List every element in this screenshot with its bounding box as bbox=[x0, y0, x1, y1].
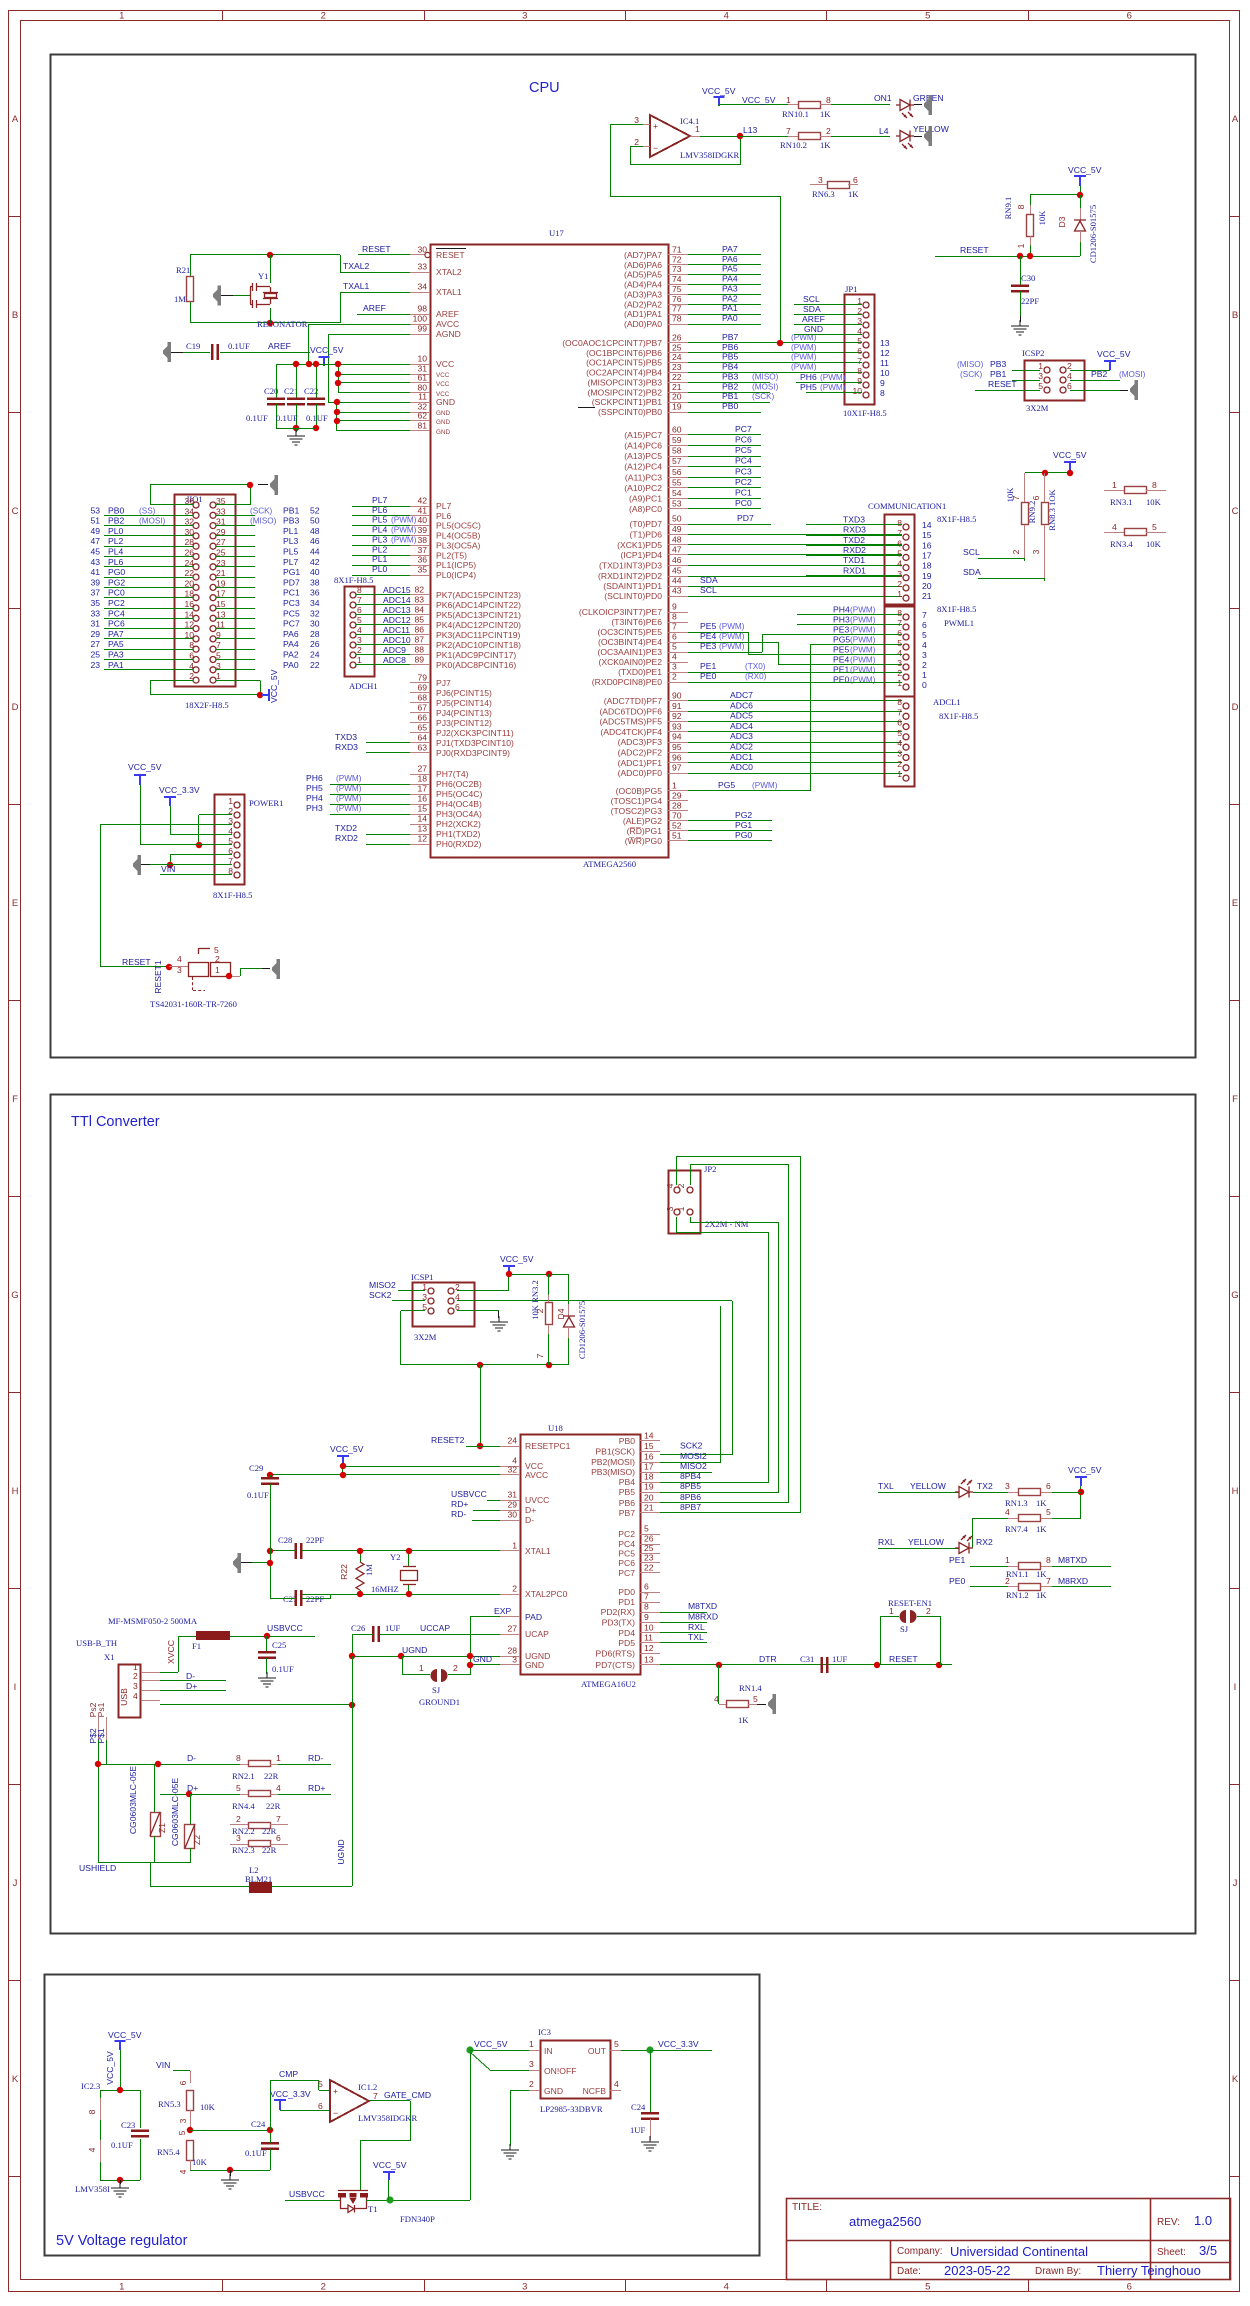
svg-text:3: 3 bbox=[133, 1681, 138, 1691]
svg-text:86: 86 bbox=[414, 625, 424, 635]
svg-text:ADCL1: ADCL1 bbox=[933, 697, 961, 707]
svg-text:K: K bbox=[12, 2074, 19, 2085]
svg-text:PB3: PB3 bbox=[990, 359, 1006, 369]
resistor RN3.1 10K bbox=[1104, 480, 1166, 507]
svg-text:VCC: VCC bbox=[436, 372, 450, 379]
svg-text:67: 67 bbox=[417, 703, 427, 713]
svg-text:(TXD1INT3)PD3: (TXD1INT3)PD3 bbox=[599, 561, 662, 571]
svg-text:4: 4 bbox=[87, 2147, 97, 2152]
U18 left pin RESETPC1 bbox=[431, 1435, 571, 1451]
svg-text:SDA: SDA bbox=[700, 575, 718, 585]
svg-text:D4: D4 bbox=[556, 1308, 566, 1319]
svg-text:21: 21 bbox=[216, 568, 226, 578]
svg-text:PB0: PB0 bbox=[619, 1436, 635, 1446]
svg-text:10: 10 bbox=[644, 1623, 654, 1633]
wire PG5 to PWML1 pin5 bbox=[688, 645, 902, 792]
svg-text:(ALE)PG2: (ALE)PG2 bbox=[623, 816, 662, 826]
svg-text:36: 36 bbox=[310, 588, 320, 598]
svg-text:Y1: Y1 bbox=[258, 271, 269, 281]
svg-text:RESET: RESET bbox=[362, 244, 391, 254]
U18 pad EXP bbox=[470, 1606, 542, 1675]
svg-text:PC0: PC0 bbox=[108, 588, 125, 598]
svg-text:7: 7 bbox=[922, 610, 927, 620]
svg-text:ADC1: ADC1 bbox=[730, 752, 753, 762]
JP1 wires PH6/PH5 PWM bbox=[796, 372, 862, 393]
svg-text:3: 3 bbox=[922, 650, 927, 660]
svg-text:PL2: PL2 bbox=[372, 544, 388, 554]
svg-text:MISO2: MISO2 bbox=[680, 1461, 707, 1471]
svg-text:89: 89 bbox=[414, 655, 424, 665]
svg-text:(W̅R̅)PG0: (W̅R̅)PG0 bbox=[625, 836, 662, 846]
svg-text:22: 22 bbox=[310, 660, 320, 670]
svg-text:PB5: PB5 bbox=[722, 352, 738, 362]
svg-text:50: 50 bbox=[310, 516, 320, 526]
svg-text:PJ3(PCINT12): PJ3(PCINT12) bbox=[436, 718, 492, 728]
svg-text:2: 2 bbox=[1005, 1576, 1010, 1586]
TTl Converter section box bbox=[51, 1095, 1196, 1934]
svg-text:ON!OFF: ON!OFF bbox=[544, 2066, 576, 2076]
svg-text:88: 88 bbox=[414, 645, 424, 655]
svg-text:PK3(ADC11PCINT19): PK3(ADC11PCINT19) bbox=[436, 630, 521, 640]
svg-text:R21: R21 bbox=[176, 265, 190, 275]
svg-text:TXD3: TXD3 bbox=[335, 732, 357, 742]
svg-text:75: 75 bbox=[672, 284, 682, 294]
svg-text:REV:: REV: bbox=[1157, 2217, 1180, 2228]
svg-text:(AD4)PA4: (AD4)PA4 bbox=[624, 280, 662, 290]
svg-text:C30: C30 bbox=[1021, 273, 1035, 283]
svg-text:RESONATOR: RESONATOR bbox=[257, 319, 308, 329]
svg-text:2: 2 bbox=[826, 126, 831, 136]
net label L13 junction bbox=[740, 125, 788, 137]
svg-text:1K: 1K bbox=[1036, 1590, 1047, 1600]
svg-text:7: 7 bbox=[276, 1814, 281, 1824]
wire JP2 to 8PB7 bbox=[660, 1156, 801, 1513]
svg-text:(PWM): (PWM) bbox=[336, 804, 362, 813]
svg-text:2: 2 bbox=[897, 759, 902, 769]
svg-text:UCAP: UCAP bbox=[525, 1629, 549, 1639]
svg-text:Y2: Y2 bbox=[390, 1552, 401, 1562]
svg-text:M8TXD: M8TXD bbox=[688, 1601, 717, 1611]
svg-text:29: 29 bbox=[90, 629, 100, 639]
svg-text:4: 4 bbox=[724, 11, 729, 22]
USB data stubs D- D+ bbox=[160, 1671, 226, 1691]
svg-text:GND: GND bbox=[436, 429, 450, 436]
capacitor C27 22PF bbox=[270, 1548, 360, 1606]
svg-text:(ADC1)PF1: (ADC1)PF1 bbox=[618, 758, 663, 768]
svg-text:26: 26 bbox=[644, 1534, 654, 1544]
svg-text:2: 2 bbox=[535, 1308, 545, 1313]
svg-text:NCFB: NCFB bbox=[583, 2086, 607, 2096]
svg-text:12: 12 bbox=[644, 1643, 654, 1653]
svg-text:(MOSI): (MOSI) bbox=[139, 517, 166, 526]
svg-text:7: 7 bbox=[857, 356, 862, 366]
varistor Z2 CG0603MLC-05E bbox=[170, 1778, 202, 1863]
wire PE1 to PWML1 pin2 bbox=[688, 672, 902, 674]
svg-text:ADC15: ADC15 bbox=[383, 585, 411, 595]
svg-text:8: 8 bbox=[236, 1753, 241, 1763]
svg-text:5: 5 bbox=[753, 1694, 758, 1704]
wire divider bottom to ground bbox=[190, 2167, 270, 2176]
net USHIELD bbox=[79, 1863, 190, 1888]
svg-text:PC2: PC2 bbox=[735, 477, 752, 487]
net row D+ to RD+ bbox=[160, 1783, 331, 1811]
op-amp IC2.3 power pins block bbox=[75, 2030, 142, 2194]
svg-text:Company:: Company: bbox=[897, 2246, 943, 2257]
U18 left pins USB interface bbox=[451, 1489, 549, 1525]
transistor T1 FDN340P bbox=[285, 2189, 470, 2224]
wire pullup top rail bbox=[1025, 470, 1073, 476]
svg-text:0.1UF: 0.1UF bbox=[246, 413, 268, 423]
svg-text:PE1: PE1 bbox=[949, 1555, 965, 1565]
U18 right pins PC bbox=[618, 1524, 660, 1579]
svg-text:RN6.3: RN6.3 bbox=[812, 189, 835, 199]
svg-text:38: 38 bbox=[310, 577, 320, 587]
svg-text:ADCH1: ADCH1 bbox=[349, 681, 378, 691]
svg-text:(SS): (SS) bbox=[139, 506, 156, 515]
svg-text:(PWM): (PWM) bbox=[850, 616, 876, 625]
svg-text:44: 44 bbox=[672, 576, 682, 586]
wire PE5 to PWML1 pin4 bbox=[688, 632, 902, 655]
svg-text:PL5(OC5C): PL5(OC5C) bbox=[436, 521, 481, 531]
svg-text:USB: USB bbox=[119, 1688, 129, 1706]
ground arrow JIO1 bbox=[258, 475, 278, 495]
svg-text:85: 85 bbox=[414, 615, 424, 625]
svg-text:6: 6 bbox=[1031, 495, 1041, 500]
svg-text:D3: D3 bbox=[1057, 216, 1067, 227]
svg-text:GND: GND bbox=[436, 397, 455, 407]
svg-text:5: 5 bbox=[897, 728, 902, 738]
svg-text:31: 31 bbox=[90, 619, 100, 629]
svg-text:(PWM): (PWM) bbox=[719, 642, 745, 651]
svg-text:4: 4 bbox=[276, 1783, 281, 1793]
ferrite bead L2 BLM21 bbox=[150, 1865, 352, 1893]
svg-text:4: 4 bbox=[724, 2282, 729, 2293]
svg-text:B: B bbox=[12, 310, 18, 321]
svg-text:RESETPC1: RESETPC1 bbox=[525, 1441, 571, 1451]
svg-text:34: 34 bbox=[184, 506, 194, 516]
svg-text:(ADC0)PF0: (ADC0)PF0 bbox=[618, 768, 663, 778]
svg-text:PH4(OC4B): PH4(OC4B) bbox=[436, 799, 482, 809]
svg-text:SCK2: SCK2 bbox=[680, 1441, 703, 1451]
svg-text:PL7: PL7 bbox=[436, 501, 452, 511]
COMMUNICATION1 serial net labels bbox=[806, 515, 902, 576]
svg-text:YELLOW: YELLOW bbox=[908, 1537, 945, 1547]
svg-text:RN10.1: RN10.1 bbox=[782, 109, 809, 119]
svg-text:AGND: AGND bbox=[436, 329, 461, 339]
svg-text:FDN340P: FDN340P bbox=[400, 2214, 435, 2224]
svg-text:3/5: 3/5 bbox=[1199, 2243, 1217, 2258]
svg-text:CPU: CPU bbox=[529, 80, 560, 96]
svg-text:PH5(OC4C): PH5(OC4C) bbox=[436, 789, 482, 799]
svg-text:(A10)PC2: (A10)PC2 bbox=[624, 483, 662, 493]
svg-text:1: 1 bbox=[276, 1753, 281, 1763]
svg-text:33: 33 bbox=[216, 506, 226, 516]
net PE0 M8RXD RN1.2 bbox=[949, 1576, 1111, 1600]
U18 right pins PB bbox=[591, 1431, 707, 1519]
svg-text:2: 2 bbox=[512, 1584, 517, 1594]
svg-text:6: 6 bbox=[318, 2101, 323, 2111]
svg-text:21: 21 bbox=[672, 382, 682, 392]
svg-text:1: 1 bbox=[922, 670, 927, 680]
svg-text:0.1UF: 0.1UF bbox=[247, 1490, 269, 1500]
svg-text:(TXD0)PE1: (TXD0)PE1 bbox=[618, 667, 662, 677]
svg-text:5: 5 bbox=[318, 2079, 323, 2089]
svg-text:(RX0): (RX0) bbox=[745, 672, 767, 681]
power flag VCC_5V TTl LEDs bbox=[1068, 1465, 1102, 1518]
ICSP1 left labels MISO2 SCK2 bbox=[369, 1280, 425, 1301]
svg-text:PB1: PB1 bbox=[283, 505, 299, 515]
resistor network RN10.2 1K bbox=[780, 126, 890, 150]
svg-text:7: 7 bbox=[786, 126, 791, 136]
wire AVCC/AGND rails bbox=[309, 324, 329, 402]
svg-text:8: 8 bbox=[672, 612, 677, 622]
svg-text:3: 3 bbox=[1031, 549, 1041, 554]
svg-text:4: 4 bbox=[177, 954, 182, 964]
svg-text:VCC_5V: VCC_5V bbox=[1068, 165, 1102, 175]
svg-text:Z1: Z1 bbox=[157, 1823, 167, 1833]
svg-text:D: D bbox=[1232, 702, 1239, 713]
svg-text:VIN: VIN bbox=[156, 2060, 170, 2070]
svg-text:USB-B_TH: USB-B_TH bbox=[76, 1638, 117, 1648]
svg-text:VCC_3.3V: VCC_3.3V bbox=[658, 2039, 699, 2049]
U17 right pins PB group bbox=[562, 332, 862, 417]
svg-text:82: 82 bbox=[414, 585, 424, 595]
ICSP2 left labels bbox=[957, 359, 1040, 391]
svg-text:24: 24 bbox=[310, 650, 320, 660]
svg-text:1UF: 1UF bbox=[630, 2125, 646, 2135]
capacitor C22 bbox=[304, 361, 328, 431]
svg-text:J: J bbox=[1233, 1878, 1238, 1889]
svg-text:42: 42 bbox=[417, 496, 427, 506]
power flag VCC_5V op-amp bbox=[702, 86, 788, 106]
svg-text:D-: D- bbox=[525, 1515, 534, 1525]
svg-text:1K: 1K bbox=[820, 109, 831, 119]
svg-text:42: 42 bbox=[310, 557, 320, 567]
svg-text:1: 1 bbox=[1112, 480, 1117, 490]
svg-text:49: 49 bbox=[672, 524, 682, 534]
svg-text:PA3: PA3 bbox=[722, 283, 738, 293]
svg-text:H: H bbox=[1232, 1486, 1239, 1497]
svg-text:44: 44 bbox=[310, 547, 320, 557]
svg-text:PK2(ADC10PCINT18): PK2(ADC10PCINT18) bbox=[436, 640, 521, 650]
svg-text:(SCK): (SCK) bbox=[752, 392, 775, 401]
svg-text:PL3: PL3 bbox=[283, 536, 299, 546]
svg-text:3: 3 bbox=[672, 662, 677, 672]
net label USBVCC bbox=[264, 1623, 315, 1639]
svg-text:PH6: PH6 bbox=[306, 773, 323, 783]
ground earth IC3 bbox=[501, 2144, 519, 2159]
svg-text:15: 15 bbox=[417, 804, 427, 814]
svg-text:98: 98 bbox=[417, 304, 427, 314]
svg-text:RX2: RX2 bbox=[976, 1537, 993, 1547]
title block bbox=[786, 2199, 1231, 2281]
svg-text:PC7: PC7 bbox=[618, 1568, 635, 1578]
svg-text:7: 7 bbox=[672, 622, 677, 632]
svg-text:C19: C19 bbox=[186, 341, 200, 351]
svg-text:28: 28 bbox=[672, 801, 682, 811]
svg-text:2: 2 bbox=[672, 672, 677, 682]
svg-text:GATE_CMD: GATE_CMD bbox=[384, 2090, 431, 2100]
svg-text:(A8)PC0: (A8)PC0 bbox=[629, 504, 662, 514]
resistor RN9.2 10K bbox=[1005, 473, 1037, 561]
svg-text:8X1F-H8.5: 8X1F-H8.5 bbox=[334, 575, 373, 585]
svg-text:AVCC: AVCC bbox=[436, 319, 459, 329]
svg-text:RN3.4: RN3.4 bbox=[1110, 539, 1133, 549]
svg-text:ADC2: ADC2 bbox=[730, 742, 753, 752]
svg-text:L4: L4 bbox=[879, 126, 889, 136]
header JP1 10X1F-H8.5 bbox=[843, 284, 890, 418]
svg-text:20: 20 bbox=[184, 578, 194, 588]
svg-text:RD-: RD- bbox=[308, 1753, 323, 1763]
svg-text:PC6: PC6 bbox=[618, 1558, 635, 1568]
svg-text:3: 3 bbox=[522, 11, 527, 22]
svg-text:35: 35 bbox=[90, 598, 100, 608]
svg-text:+: + bbox=[653, 121, 658, 131]
svg-text:7: 7 bbox=[1046, 1576, 1051, 1586]
svg-text:PL1(ICP5): PL1(ICP5) bbox=[436, 560, 476, 570]
svg-text:PH4: PH4 bbox=[306, 793, 323, 803]
svg-text:LMV358I: LMV358I bbox=[75, 2184, 110, 2194]
svg-text:PA6: PA6 bbox=[283, 629, 299, 639]
svg-text:LMV358IDGKR: LMV358IDGKR bbox=[680, 150, 739, 160]
svg-text:1UF: 1UF bbox=[385, 1623, 401, 1633]
svg-text:6: 6 bbox=[1127, 11, 1132, 22]
svg-text:PB1: PB1 bbox=[990, 369, 1006, 379]
svg-text:4: 4 bbox=[897, 648, 902, 658]
svg-text:10: 10 bbox=[852, 386, 862, 396]
resistor network RN7.4 1K bbox=[973, 1507, 1082, 1548]
svg-text:D+: D+ bbox=[186, 1681, 197, 1691]
svg-text:PC5: PC5 bbox=[618, 1549, 635, 1559]
svg-text:PB6: PB6 bbox=[722, 342, 738, 352]
svg-text:POWER1: POWER1 bbox=[249, 798, 283, 808]
svg-text:PB3(MISO): PB3(MISO) bbox=[591, 1467, 635, 1477]
svg-text:P$1: P$1 bbox=[96, 1728, 106, 1744]
svg-text:PA4: PA4 bbox=[722, 274, 738, 284]
svg-text:PC3: PC3 bbox=[735, 466, 752, 476]
svg-text:1: 1 bbox=[228, 796, 233, 806]
svg-text:PH6(OC2B): PH6(OC2B) bbox=[436, 779, 482, 789]
svg-text:(T1)PD6: (T1)PD6 bbox=[630, 530, 663, 540]
svg-text:6: 6 bbox=[357, 605, 362, 615]
svg-text:22R: 22R bbox=[262, 1845, 277, 1855]
svg-text:3: 3 bbox=[897, 569, 902, 579]
svg-text:(SCK): (SCK) bbox=[960, 370, 983, 379]
svg-text:71: 71 bbox=[672, 245, 682, 255]
svg-text:PE5: PE5 bbox=[833, 645, 849, 655]
ground earth below C30 bbox=[1011, 320, 1029, 335]
svg-text:PA5: PA5 bbox=[108, 639, 124, 649]
svg-text:VCC_5V: VCC_5V bbox=[702, 86, 736, 96]
svg-text:17: 17 bbox=[417, 784, 427, 794]
svg-text:CG0603MLC-05E: CG0603MLC-05E bbox=[128, 1766, 138, 1835]
svg-text:76: 76 bbox=[672, 294, 682, 304]
header JP2 2X2M-NM bbox=[665, 1164, 749, 1234]
svg-text:PB2: PB2 bbox=[108, 516, 124, 526]
svg-text:(R̅D̅)PG1: (R̅D̅)PG1 bbox=[627, 826, 663, 836]
svg-text:5: 5 bbox=[644, 1524, 649, 1534]
svg-text:VCC_5V: VCC_5V bbox=[1097, 349, 1131, 359]
svg-text:PB0: PB0 bbox=[722, 401, 738, 411]
svg-text:(OC3BINT4)PE4: (OC3BINT4)PE4 bbox=[598, 637, 662, 647]
svg-text:PG1: PG1 bbox=[735, 820, 752, 830]
ground earth divider bbox=[221, 2174, 239, 2189]
svg-text:Ps1: Ps1 bbox=[96, 1702, 106, 1717]
svg-text:(OC1APCINT5)PB5: (OC1APCINT5)PB5 bbox=[586, 358, 662, 368]
U18 left pin XTAL2PC0 bbox=[302, 1584, 568, 1600]
svg-text:18: 18 bbox=[417, 774, 427, 784]
svg-text:PAD: PAD bbox=[525, 1612, 542, 1622]
svg-text:16: 16 bbox=[184, 599, 194, 609]
JIO1 top ground loop bbox=[150, 482, 253, 505]
svg-text:ADC3: ADC3 bbox=[730, 731, 753, 741]
wire JP2 to 8PB5 bbox=[660, 1217, 779, 1493]
svg-text:PB1(SCK): PB1(SCK) bbox=[595, 1447, 635, 1457]
svg-text:8: 8 bbox=[1152, 480, 1157, 490]
svg-text:9: 9 bbox=[672, 602, 677, 612]
svg-text:PL4: PL4 bbox=[108, 547, 124, 557]
U17 left pins PL group bbox=[352, 495, 481, 580]
svg-text:PA7: PA7 bbox=[722, 244, 738, 254]
svg-text:M8RXD: M8RXD bbox=[1058, 1576, 1088, 1586]
svg-text:VCC_5V: VCC_5V bbox=[474, 2039, 508, 2049]
net VIN divider RN5.3 bbox=[156, 2060, 216, 2135]
svg-text:PA0: PA0 bbox=[283, 660, 299, 670]
svg-text:PD7(CTS): PD7(CTS) bbox=[595, 1660, 635, 1670]
wire op-amp output to PB7 bbox=[777, 196, 783, 346]
svg-text:PL0(ICP4): PL0(ICP4) bbox=[436, 570, 476, 580]
svg-text:L13: L13 bbox=[743, 125, 758, 135]
capacitor C19 with AREF net bbox=[163, 341, 310, 362]
svg-text:JP1: JP1 bbox=[845, 284, 857, 294]
svg-text:16: 16 bbox=[644, 1452, 654, 1462]
svg-text:PB2: PB2 bbox=[1091, 369, 1107, 379]
svg-text:(MOSIPCINT2)PB2: (MOSIPCINT2)PB2 bbox=[588, 387, 663, 397]
svg-text:(A12)PC4: (A12)PC4 bbox=[624, 462, 662, 472]
svg-text:GND: GND bbox=[473, 1654, 492, 1664]
svg-text:PG2: PG2 bbox=[108, 577, 125, 587]
capacitor C30 22PF bbox=[1011, 256, 1039, 322]
svg-text:D: D bbox=[12, 702, 19, 713]
svg-text:RN1.4: RN1.4 bbox=[739, 1683, 762, 1693]
svg-text:3: 3 bbox=[897, 749, 902, 759]
svg-text:30: 30 bbox=[507, 1510, 517, 1520]
svg-text:(MOSI): (MOSI) bbox=[1119, 370, 1146, 379]
svg-text:IC2.3: IC2.3 bbox=[81, 2081, 100, 2091]
svg-text:AREF: AREF bbox=[268, 341, 291, 351]
svg-text:2: 2 bbox=[236, 1814, 241, 1824]
power flag VCC_5V ICSP1 bbox=[500, 1254, 534, 1274]
svg-text:PB7: PB7 bbox=[722, 332, 738, 342]
svg-text:PA2: PA2 bbox=[283, 650, 299, 660]
svg-text:2: 2 bbox=[321, 11, 326, 22]
svg-text:22PF: 22PF bbox=[1021, 296, 1039, 306]
svg-text:0.1UF: 0.1UF bbox=[111, 2140, 133, 2150]
net label L4 bbox=[879, 126, 889, 136]
power flag VCC_3.3V op-amp bbox=[270, 2089, 330, 2111]
svg-text:RESET: RESET bbox=[436, 250, 465, 260]
svg-text:D-: D- bbox=[186, 1671, 195, 1681]
svg-text:PA3: PA3 bbox=[108, 650, 124, 660]
header PWML1 8X1F-H8.5 bbox=[885, 604, 977, 697]
svg-text:XTAL2PC0: XTAL2PC0 bbox=[525, 1589, 568, 1599]
svg-text:C29: C29 bbox=[249, 1463, 263, 1473]
net PE1 M8TXD RN1.1 bbox=[949, 1555, 1111, 1579]
svg-text:PD7: PD7 bbox=[283, 577, 300, 587]
POWER1 wires bbox=[100, 815, 232, 963]
svg-text:SDA: SDA bbox=[963, 567, 981, 577]
svg-text:PG2: PG2 bbox=[735, 810, 752, 820]
